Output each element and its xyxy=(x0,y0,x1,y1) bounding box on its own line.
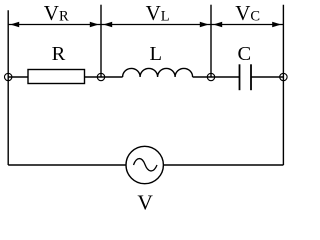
node A circle xyxy=(5,73,12,80)
AC source sine wave xyxy=(134,159,158,171)
node D circle xyxy=(280,73,287,80)
svg-text:R: R xyxy=(52,43,66,65)
wire bottom right xyxy=(163,164,283,166)
wire capacitor to right rail xyxy=(251,76,283,78)
dimension line VR span xyxy=(8,24,101,26)
wire main horizontal top (left part through R to capacitor left plate) xyxy=(8,76,122,78)
AC source V circle xyxy=(126,146,163,183)
arrowhead left end VR xyxy=(10,22,19,27)
svg-text:V: V xyxy=(137,190,153,213)
wire inductor to capacitor xyxy=(193,76,240,78)
wire bottom left xyxy=(8,164,126,166)
svg-text:C: C xyxy=(237,43,251,65)
arrowhead right end VL xyxy=(200,22,209,27)
resistor R xyxy=(28,70,85,84)
node tick line at node B xyxy=(100,5,102,77)
arrowhead right end VR xyxy=(90,22,99,27)
node C circle xyxy=(207,73,214,80)
svg-text:L: L xyxy=(150,43,163,65)
arrowhead right end VC xyxy=(272,22,281,27)
capacitor C plate right xyxy=(250,64,252,90)
arrowhead left end VC xyxy=(213,22,222,27)
inductor L xyxy=(123,68,193,77)
node tick line at node C xyxy=(210,5,212,77)
dimension line VC span xyxy=(211,24,283,26)
wire right vertical rail xyxy=(282,5,284,165)
capacitor C plate left xyxy=(239,64,241,90)
node B circle xyxy=(97,73,104,80)
wire left vertical rail xyxy=(7,10,9,165)
arrowhead left end VL xyxy=(103,22,112,27)
dimension line VL span xyxy=(101,24,211,26)
